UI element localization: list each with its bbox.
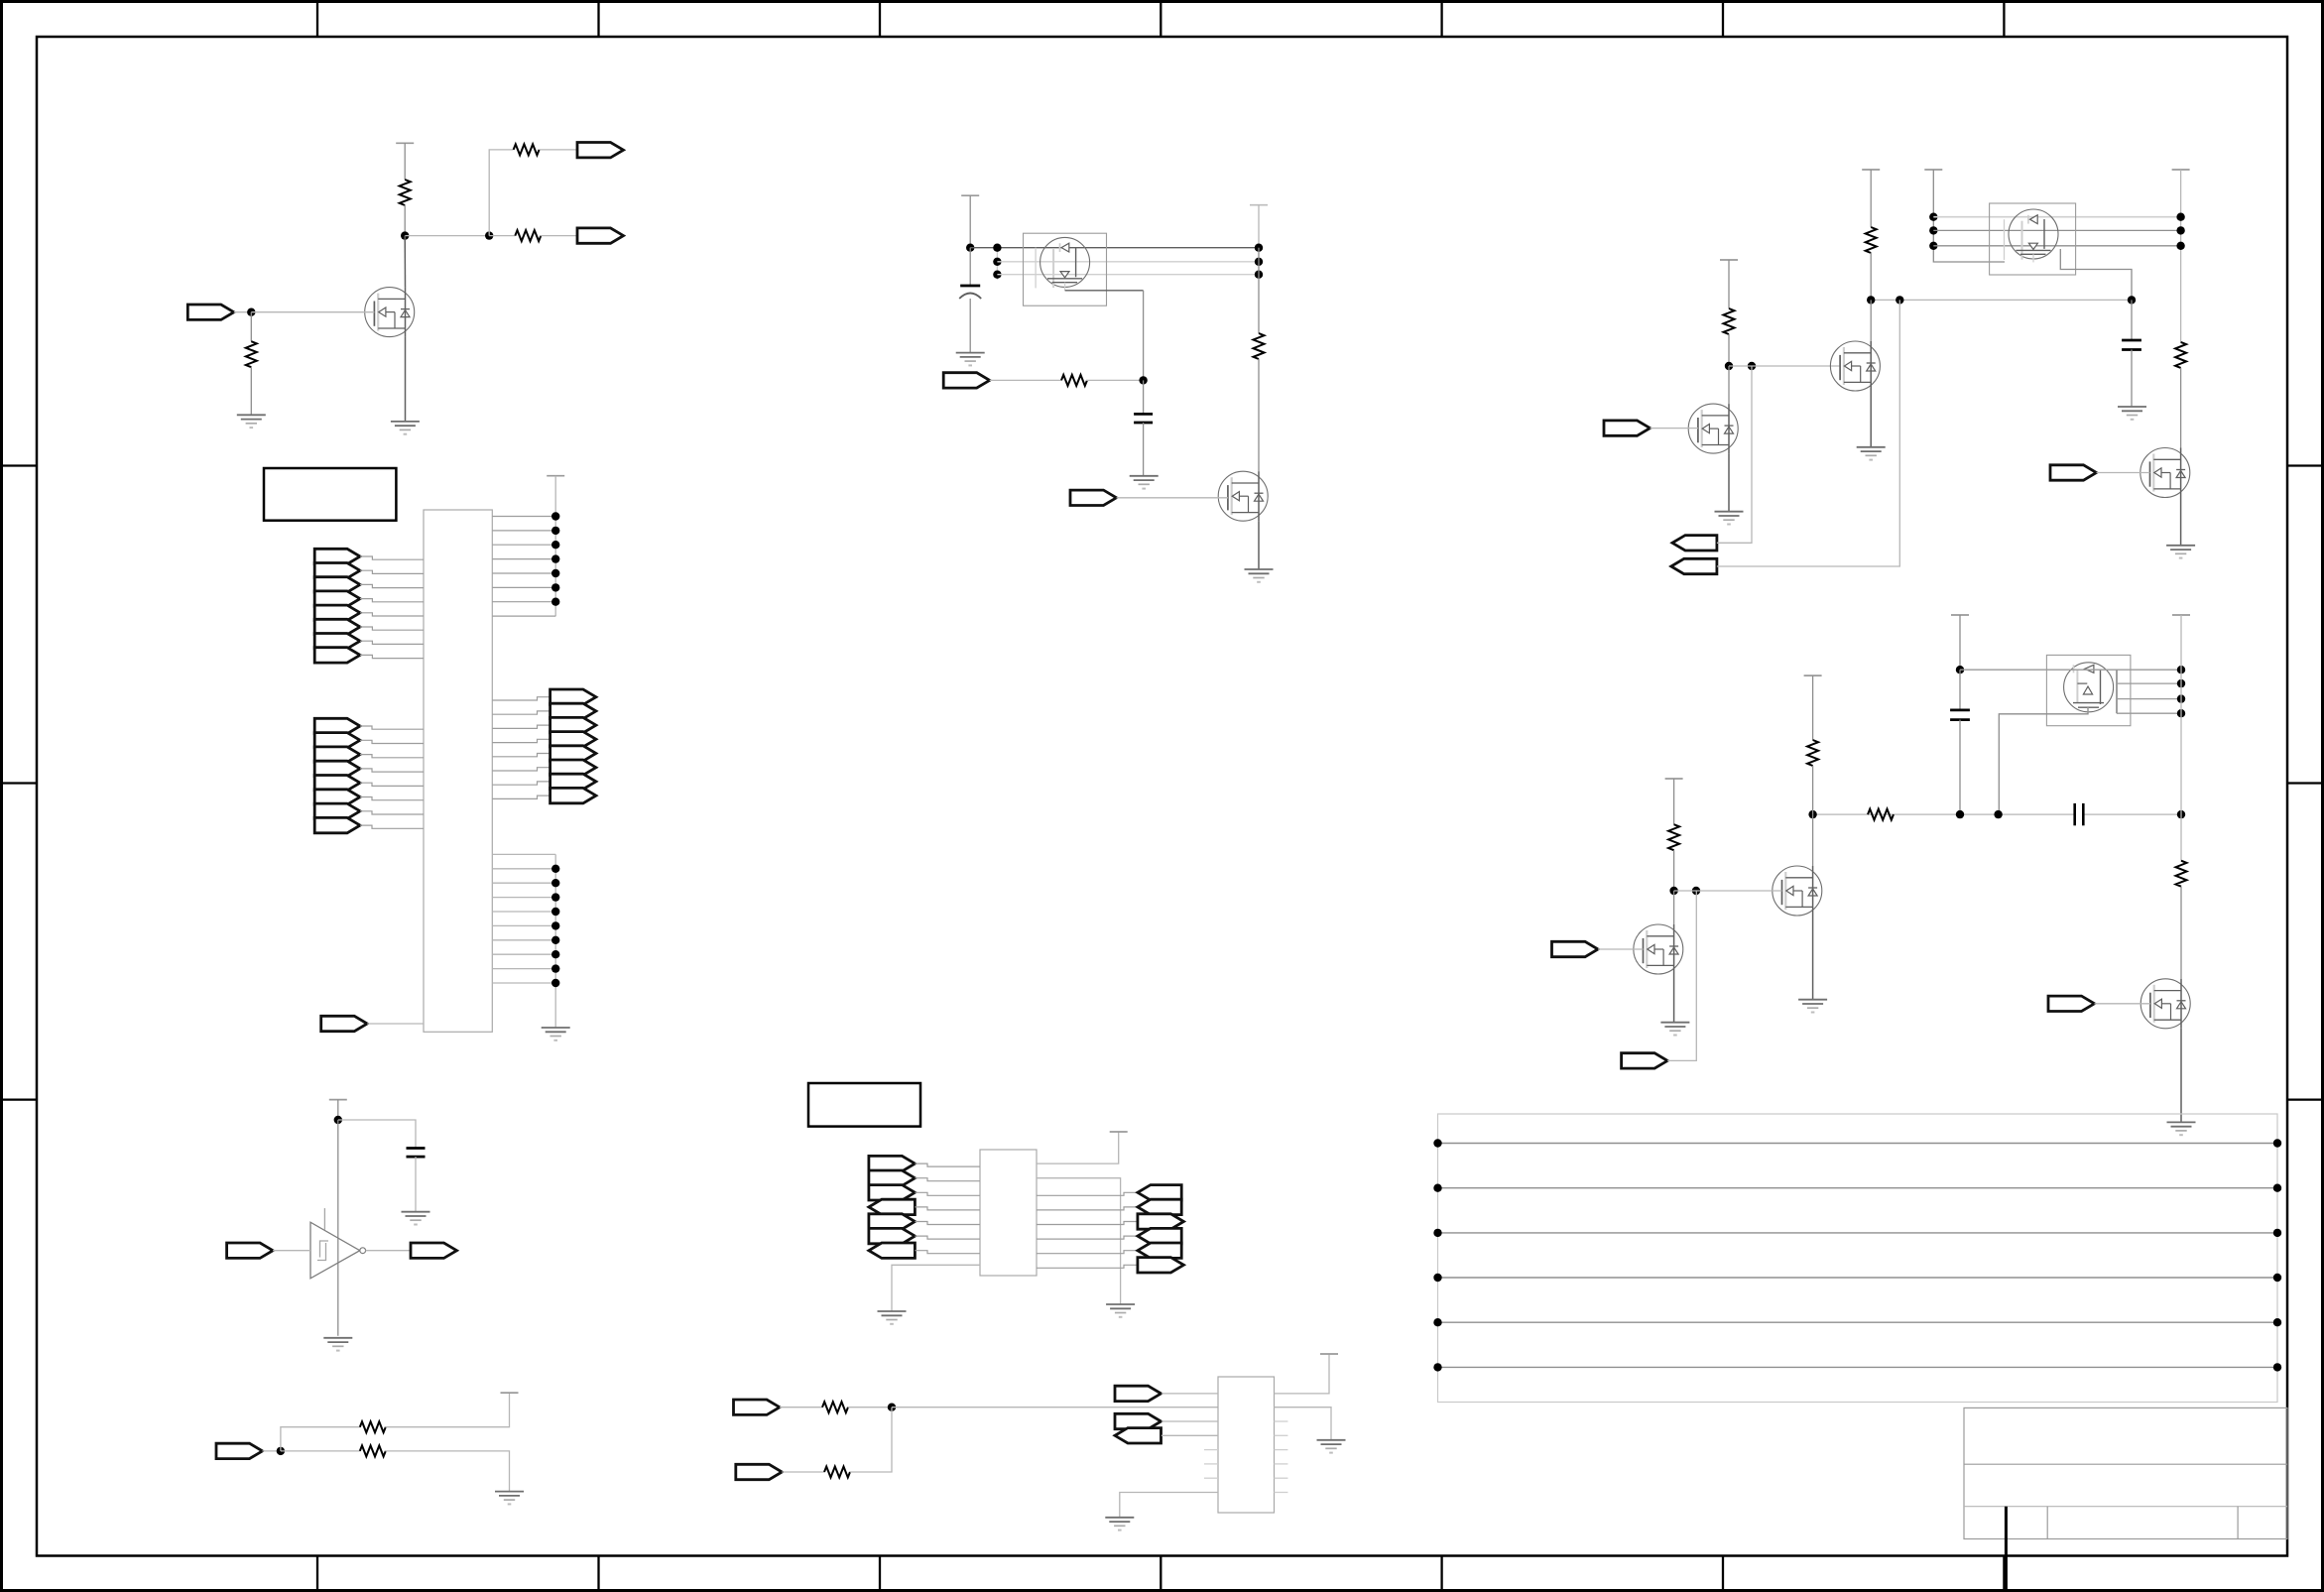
net flag U3 right pin 8: [1138, 1258, 1184, 1273]
wire node G to C2: [969, 248, 971, 286]
frame zone tick left 2: [2, 782, 38, 784]
wire U3 right pin 5: [1037, 1222, 1138, 1225]
net flag N1: [577, 143, 624, 158]
resistor R14: [1868, 809, 1894, 820]
wire P4 to R11: [1870, 170, 1872, 227]
junction U1 top-right pin 4: [551, 554, 559, 562]
wire flag to Q3 gate: [1117, 497, 1228, 499]
net flag buffer input: [227, 1243, 274, 1258]
net flag U1 right out 5: [550, 746, 596, 761]
wire R5 to power: [385, 1393, 509, 1427]
net flag U1 left group1 pin 2: [314, 563, 360, 578]
ground under Q6: [1857, 447, 1886, 460]
ground under buffer U2: [323, 1338, 352, 1351]
bus table net row 3: [1438, 1232, 2278, 1234]
wire flag to Q11 gate: [1598, 948, 1644, 950]
frame zone tick top 6: [1722, 2, 1724, 38]
wire P3 down: [1258, 205, 1260, 248]
wire P7 to R13: [1728, 260, 1730, 308]
capacitor C3: [1134, 414, 1153, 423]
transistor Q1: [365, 288, 415, 337]
wire R12 to Q5 drain: [2180, 368, 2182, 448]
power rail P2: [961, 194, 979, 196]
wire U3 right pin 3: [1037, 1192, 1138, 1195]
wire R17 to node M: [1673, 850, 1675, 891]
title block outline: [1964, 1408, 2287, 1538]
wire P10 to R16: [1812, 675, 1814, 740]
wire R7 to node F: [848, 1407, 892, 1408]
net flag U1 right out 6: [550, 760, 596, 775]
net flag U3 right pin 5: [1138, 1214, 1184, 1229]
wire Q7 source to ground: [1728, 453, 1730, 512]
IC U3 body: [980, 1150, 1037, 1276]
power rail right of U3: [1110, 1131, 1128, 1133]
net flag U3 left pin 2: [869, 1170, 916, 1185]
wire U1 top-right pin 1: [492, 516, 555, 518]
bus table net row 6: [1438, 1366, 2278, 1368]
wire U3 left pin 5: [915, 1222, 980, 1225]
power rail P6: [2172, 169, 2190, 171]
transistor Q6: [1830, 341, 1880, 391]
net flag U3 left pin 5: [869, 1214, 916, 1229]
wire U1 bottom-right pin 3: [492, 882, 555, 884]
net U5 row3: [997, 274, 1259, 276]
net flag low side enable: [1622, 1053, 1668, 1068]
title block divider 1: [1964, 1463, 2287, 1465]
wire U1 left group1 pin 7: [360, 641, 424, 644]
net flag U3 left pin 4: [869, 1199, 916, 1214]
resistor R6: [360, 1445, 386, 1456]
wire Q6 source to ground: [1870, 391, 1872, 447]
net flag U3 right pin 7: [1138, 1243, 1181, 1258]
wire U1 right out 4: [492, 739, 550, 742]
net flag feedback 2: [1671, 558, 1717, 573]
junction node M: [1669, 887, 1677, 895]
frame zone tick bottom 1: [316, 1556, 318, 1591]
resistor R15: [2176, 861, 2187, 887]
net flag U1 left group2 pin 1: [314, 718, 360, 733]
junction node J2: [1748, 362, 1756, 370]
wire U4 left pin 3: [1162, 1420, 1218, 1422]
wire U1 right out 1: [492, 697, 550, 700]
wire Q6 drain up to node I: [1870, 300, 1872, 341]
frame zone tick left 3: [2, 1098, 38, 1100]
junction node H: [1139, 376, 1147, 384]
junction drain2 row1: [2176, 213, 2184, 221]
junction node E: [277, 1447, 285, 1455]
junction U5 pin1: [993, 244, 1001, 252]
net source row through U5: [970, 247, 1259, 249]
wire U3 left pin 4: [915, 1207, 980, 1210]
bus table net row 2: [1438, 1187, 2278, 1189]
wire P9 down through drain rows: [2180, 615, 2182, 861]
junction U5 pin3: [993, 271, 1001, 279]
IC U1 body: [424, 510, 492, 1032]
wire U1 right out 6: [492, 768, 550, 771]
net flag Q9 gate: [2048, 996, 2095, 1011]
wire Q4 gate exit: [2060, 249, 2132, 300]
frame zone tick top 1: [316, 2, 318, 38]
bus table box: [1438, 1114, 2278, 1403]
wire flag to R8: [782, 1471, 824, 1473]
wire U3 right pin 2 to ground: [1037, 1178, 1121, 1304]
stub U4 left pin 5: [1204, 1449, 1218, 1451]
transistor Q8 package: [2046, 655, 2131, 725]
junction node C: [247, 308, 255, 316]
power rail above R5: [501, 1392, 519, 1394]
wire U3 right pin 8: [1037, 1265, 1138, 1268]
wire U1 right out 8: [492, 796, 550, 798]
resistor R11: [1866, 227, 1877, 253]
wire U1 bottom-right pin 1: [492, 853, 555, 855]
junction U6 pin3: [1929, 242, 1937, 250]
frame zone tick top 7: [2003, 2, 2005, 38]
net flag U1 left group1 pin 6: [314, 619, 360, 634]
wire U1 left group1 pin 2: [360, 570, 424, 573]
stub U4 left pin 7: [1204, 1477, 1218, 1479]
power rail above buffer U2: [329, 1099, 347, 1101]
ground under C2: [956, 353, 985, 366]
title box label U3: [808, 1083, 920, 1127]
net node row L right: [2083, 813, 2181, 815]
wire U3 left pin 6: [915, 1236, 980, 1239]
bus table net row 5: [1438, 1321, 2278, 1323]
ground under Q5: [2166, 546, 2195, 558]
frame zone tick bottom 4: [1160, 1556, 1162, 1591]
bus table row 3 left junction: [1433, 1229, 1441, 1237]
junction node L1: [1808, 810, 1816, 818]
wire flag to node E: [263, 1450, 281, 1452]
wire U1 left group2 pin 2: [360, 740, 424, 743]
junction Q8 drain row 3: [2177, 694, 2185, 702]
bus table row 6 left junction: [1433, 1363, 1441, 1371]
power rail P3: [1250, 204, 1268, 206]
resistor R13: [1724, 308, 1735, 334]
junction Q8 drain row 2: [2177, 679, 2185, 687]
wire input to buffer: [273, 1250, 310, 1252]
wire R2 to flag N1: [540, 149, 577, 151]
wire U1 left group1 pin 3: [360, 584, 424, 587]
ground under Q11: [1660, 1023, 1689, 1036]
resistor R2: [514, 144, 540, 155]
junction U6 pin2: [1929, 226, 1937, 234]
net flag U1 left group2 pin 2: [314, 733, 360, 748]
stub U4 right pin 3: [1275, 1420, 1288, 1422]
wire node A to Q1 drain: [404, 236, 406, 288]
stub U4 right pin 7: [1275, 1477, 1288, 1479]
wire P6 down to R12: [2180, 170, 2182, 342]
net flag U1 left group1 pin 4: [314, 591, 360, 606]
wire R10 to node H: [1086, 379, 1144, 381]
net flag U1 right out 1: [550, 689, 596, 704]
frame zone tick bottom 6: [1722, 1556, 1724, 1591]
wire U1 top-right pin 5: [492, 572, 555, 574]
ground under Q1: [391, 422, 420, 434]
power rail P10: [1804, 674, 1822, 676]
wire node L1 to Q10 drain: [1812, 814, 1814, 866]
wire U1 left group1 pin 8: [360, 655, 424, 658]
net node row I: [1871, 299, 2132, 301]
wire C2 to ground: [969, 299, 971, 353]
net flag gate drive 1: [943, 373, 990, 388]
capacitor C5: [1950, 710, 1970, 720]
junction drain2 row2: [2176, 226, 2184, 234]
junction U1 top-right pin 7: [551, 598, 559, 606]
net flag U1 bottom input: [321, 1016, 368, 1031]
net flag U3 right pin 3: [1138, 1185, 1181, 1200]
net flag U1 right out 4: [550, 732, 596, 747]
wire Q10 source to ground: [1812, 916, 1814, 1000]
resistor R8: [824, 1467, 850, 1478]
net flag U1 right out 7: [550, 774, 596, 789]
title block cell divider B: [2237, 1507, 2239, 1539]
junction node K: [1956, 666, 1964, 674]
junction Q8 drain row 4: [2177, 709, 2185, 717]
junction Q8 row 1: [2177, 666, 2185, 674]
junction drain row2: [1255, 258, 1263, 266]
wire Q11 source to ground: [1673, 974, 1675, 1023]
wire U1 left group1 pin 5: [360, 613, 424, 616]
wire U1 bottom-right pin 10: [492, 982, 555, 984]
net U6 row2: [1933, 229, 2180, 231]
wire node E to R6: [281, 1450, 360, 1452]
ground under U1 bus: [542, 1028, 570, 1041]
resistor R16: [1807, 740, 1818, 766]
net Q8 drain row 3: [2117, 698, 2181, 700]
wire N3 to node C: [234, 311, 252, 313]
wire R4 to ground: [250, 367, 252, 415]
title box label U1: [264, 468, 396, 521]
junction U1 bottom-right pin 7: [551, 936, 559, 944]
junction U1 top-right pin 2: [551, 527, 559, 535]
wire R16 to node L1: [1812, 766, 1814, 814]
wire U1 left group2 pin 6: [360, 797, 424, 800]
wire U1 bottom-right pin 4: [492, 897, 555, 899]
frame zone tick left 1: [2, 464, 38, 466]
transistor Q7: [1688, 404, 1738, 453]
net flag U3 left pin 7: [869, 1243, 916, 1258]
wire R13 to node J: [1728, 334, 1730, 366]
wire U1 bottom-right pin 5: [492, 911, 555, 913]
wire U1 left group1 pin 4: [360, 599, 424, 602]
ground right of U3: [1106, 1304, 1135, 1317]
wire U3 right pin 4: [1037, 1207, 1138, 1210]
junction U1 top-right pin 5: [551, 569, 559, 577]
wire R6 to ground: [385, 1451, 509, 1492]
junction U1 top-right pin 3: [551, 541, 559, 549]
net flag U1 left group2 pin 8: [314, 817, 360, 832]
wire Q8 gate exit: [1999, 707, 2088, 814]
capacitor C1: [407, 1149, 426, 1158]
wire feedback 1: [1717, 366, 1752, 543]
net U5 row2: [997, 261, 1259, 263]
wire U1 left group2 pin 5: [360, 783, 424, 786]
transistor Q9: [2141, 979, 2190, 1029]
wire node A to node B: [405, 235, 489, 237]
power rail P4: [1862, 169, 1880, 171]
junction node G: [966, 244, 974, 252]
wire Q5 source to ground: [2180, 498, 2182, 546]
power rail P9: [2172, 614, 2190, 616]
wire P2 down to node G: [969, 195, 971, 248]
frame zone tick top 5: [1440, 2, 1442, 38]
wire buffer to output flag: [366, 1250, 411, 1252]
wire node M to Q10 gate: [1674, 890, 1782, 892]
capacitor C2 polarized: [959, 286, 981, 299]
junction node J: [1725, 362, 1733, 370]
junction U1 bottom-right pin 4: [551, 893, 559, 901]
wire feedback 2: [1717, 300, 1899, 566]
junction node I2: [1896, 296, 1903, 304]
wire U1 bottom-right pin 6: [492, 924, 555, 926]
wire Q3 source to ground: [1258, 521, 1260, 569]
junction drain row1: [1255, 244, 1263, 252]
frame zone tick bottom 2: [597, 1556, 599, 1591]
wire U1 bottom-right pin 8: [492, 953, 555, 955]
resistor R1: [400, 180, 411, 205]
wire node F to U4: [892, 1407, 1218, 1408]
wire node I3 to C4: [2131, 300, 2133, 340]
transistor Q2 package: [1024, 233, 1107, 306]
wire node H to C3: [1143, 380, 1145, 414]
ground under C3: [1130, 476, 1159, 489]
resistor R12: [2175, 342, 2186, 368]
wire R3 to flag N2: [540, 235, 577, 237]
net Q8 drain row 2: [2117, 682, 2181, 684]
net flag U1 left group2 pin 4: [314, 761, 360, 776]
wire U1 bottom input: [367, 1023, 424, 1025]
wire U1 top-right pin 3: [492, 544, 555, 546]
stub U4 right pin 4: [1275, 1434, 1288, 1436]
wire Q2 gate down to node H: [1143, 291, 1145, 381]
net flag serial line 2: [736, 1464, 783, 1479]
wire U1 right out 3: [492, 725, 550, 728]
net flag serial line 1: [734, 1400, 781, 1414]
ground under Q3: [1245, 569, 1274, 582]
wire node D through buffer to ground: [337, 1120, 339, 1336]
transistor Q4 package: [1990, 203, 2076, 275]
wire flag to R7: [780, 1407, 822, 1408]
junction U1 bottom-right pin 9: [551, 964, 559, 972]
wire C5 to node row: [1959, 720, 1961, 815]
wire U1 bottom-right bus vertical: [554, 854, 556, 1028]
wire U1 bottom-right pin 2: [492, 868, 555, 870]
wire U1 top-right bus vertical: [554, 476, 556, 617]
wire R9 to Q3 drain: [1258, 359, 1260, 471]
junction U1 bottom-right pin 8: [551, 950, 559, 958]
junction node B: [485, 231, 493, 239]
power rail right of U4: [1320, 1353, 1338, 1355]
wire U4 left pin 1: [1162, 1393, 1218, 1395]
net node row L: [1813, 813, 2075, 815]
power rail above U1 bus: [547, 475, 564, 477]
net Q8 drain row 4: [2117, 712, 2181, 714]
capacitor C6: [2075, 803, 2084, 825]
wire Q7 drain up to node J: [1728, 366, 1730, 404]
stub U4 right pin 5: [1275, 1449, 1288, 1451]
junction drain row3: [1255, 271, 1263, 279]
wire Q9 source to ground: [2180, 1029, 2182, 1123]
wire P11 to R17: [1673, 779, 1675, 824]
wire U3 left pin 1: [915, 1163, 980, 1166]
wire U4 left pin 8 to ground: [1120, 1493, 1218, 1518]
wire C1 to ground: [415, 1157, 417, 1212]
wire R15 to Q9 drain: [2180, 887, 2182, 979]
resistor R10: [1061, 375, 1087, 386]
power rail P8: [1951, 614, 1969, 616]
ground under R4: [237, 415, 266, 428]
stub U4 left pin 6: [1204, 1463, 1218, 1465]
bus table row 2 right junction: [2273, 1184, 2281, 1192]
wire Q11 drain to node M: [1673, 891, 1675, 924]
bus table row 4 left junction: [1433, 1274, 1441, 1282]
wire U1 left group2 pin 7: [360, 811, 424, 814]
wire U4 right pin 1 to power: [1275, 1354, 1330, 1394]
net flag Q11 gate: [1552, 941, 1599, 956]
wire U1 top-right pin 4: [492, 558, 555, 560]
wire flag to Q7 gate: [1651, 428, 1698, 429]
ground under C4: [2118, 407, 2146, 420]
wire U1 right out 7: [492, 782, 550, 785]
frame zone tick top 2: [597, 2, 599, 38]
wire drain bus down to R9: [1258, 248, 1260, 333]
junction U1 bottom-right pin 2: [551, 865, 559, 873]
resistor R7: [822, 1402, 848, 1412]
wire node B to R3: [489, 235, 515, 237]
resistor R4: [246, 341, 257, 367]
wire C4 to ground: [2131, 350, 2133, 408]
junction U1 top-right pin 6: [551, 583, 559, 591]
junction node D: [334, 1116, 342, 1124]
net U6 row1: [1933, 216, 2180, 218]
net flag U4 input 1: [1115, 1386, 1162, 1401]
junction U1 top-right pin 1: [551, 512, 559, 520]
wire U1 left group2 pin 8: [360, 825, 424, 828]
ground under Q7: [1715, 512, 1744, 525]
frame zone tick bottom 5: [1440, 1556, 1442, 1591]
wire U3 right pin 6: [1037, 1236, 1138, 1239]
wire U4 right pin 2 to ground: [1275, 1408, 1332, 1440]
net flag U1 left group1 pin 8: [314, 648, 360, 663]
wire flag up to node M2: [1667, 891, 1696, 1060]
net flag U1 left group1 pin 5: [314, 605, 360, 620]
wire node C to Q1 gate: [251, 311, 374, 313]
transistor Q10: [1773, 866, 1822, 916]
net flag U1 left group1 pin 7: [314, 634, 360, 649]
wire flag to Q9 gate: [2095, 1003, 2150, 1005]
bus table row 4 right junction: [2273, 1274, 2281, 1282]
wire flag to R10: [990, 379, 1061, 381]
transistor Q3: [1218, 471, 1268, 521]
wire flag to Q5 gate: [2097, 472, 2150, 474]
junction node L3: [1994, 810, 2002, 818]
wire U1 left group2 pin 4: [360, 769, 424, 772]
wire power to node D: [337, 1100, 339, 1120]
wire node E up: [281, 1427, 360, 1451]
junction U5 pin2: [993, 258, 1001, 266]
wire Q2 gate exit: [1065, 290, 1144, 292]
wire U3 left pin 8 to ground: [892, 1265, 980, 1311]
wire R8 to node F: [850, 1408, 892, 1472]
bus table net row 4: [1438, 1277, 2278, 1279]
wire U1 right out 2: [492, 711, 550, 714]
ground under Q9: [2167, 1122, 2196, 1135]
capacitor C4: [2122, 340, 2141, 350]
bus table row 5 right junction: [2273, 1318, 2281, 1326]
frame zone tick bottom 7: [2003, 1556, 2005, 1591]
net flag U3 right pin 4: [1138, 1199, 1181, 1214]
net flag gate drive 2: [1070, 490, 1117, 505]
